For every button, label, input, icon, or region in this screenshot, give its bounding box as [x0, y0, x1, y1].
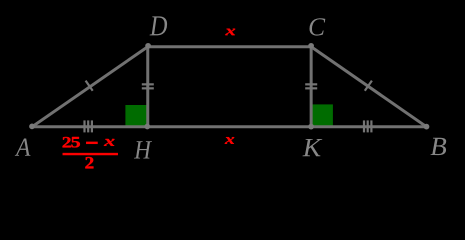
node H (dot)	[144, 124, 150, 130]
fraction numerator digit 5	[71, 137, 80, 147]
label H	[134, 141, 152, 158]
label B	[431, 138, 447, 155]
right-angle marker at H (green square)	[125, 105, 147, 127]
ticks on DH (double)	[142, 83, 154, 85]
fraction denominator 2	[85, 157, 93, 168]
label D	[150, 16, 168, 35]
label A	[15, 139, 31, 156]
node D (dot)	[145, 43, 151, 49]
label x on HK	[225, 137, 235, 144]
tick on CB (single)	[365, 81, 372, 91]
node B (dot)	[424, 124, 430, 130]
label K	[303, 139, 323, 156]
node A (dot)	[29, 124, 35, 130]
wire: segment AD	[32, 47, 148, 127]
ticks on AH (triple)	[83, 120, 85, 132]
ticks on CK (double)	[305, 83, 317, 85]
node K (dot)	[308, 124, 314, 130]
wire: segment CB	[311, 47, 426, 127]
wire: altitude DH	[146, 47, 149, 127]
wire: segment AB (base through H and K)	[32, 125, 427, 128]
label C	[310, 18, 326, 35]
fraction numerator x	[104, 139, 115, 146]
fraction numerator digit 2	[63, 137, 71, 147]
label x on DC	[225, 29, 235, 35]
tick on AD (single)	[86, 81, 93, 91]
fraction numerator minus sign	[86, 142, 97, 144]
right-angle marker at K (green square)	[311, 104, 333, 126]
fraction bar	[63, 153, 118, 155]
ticks on KB (triple)	[363, 120, 365, 132]
wire: altitude CK	[310, 47, 313, 127]
node C (dot)	[308, 43, 314, 49]
wire: segment DC	[148, 45, 311, 48]
